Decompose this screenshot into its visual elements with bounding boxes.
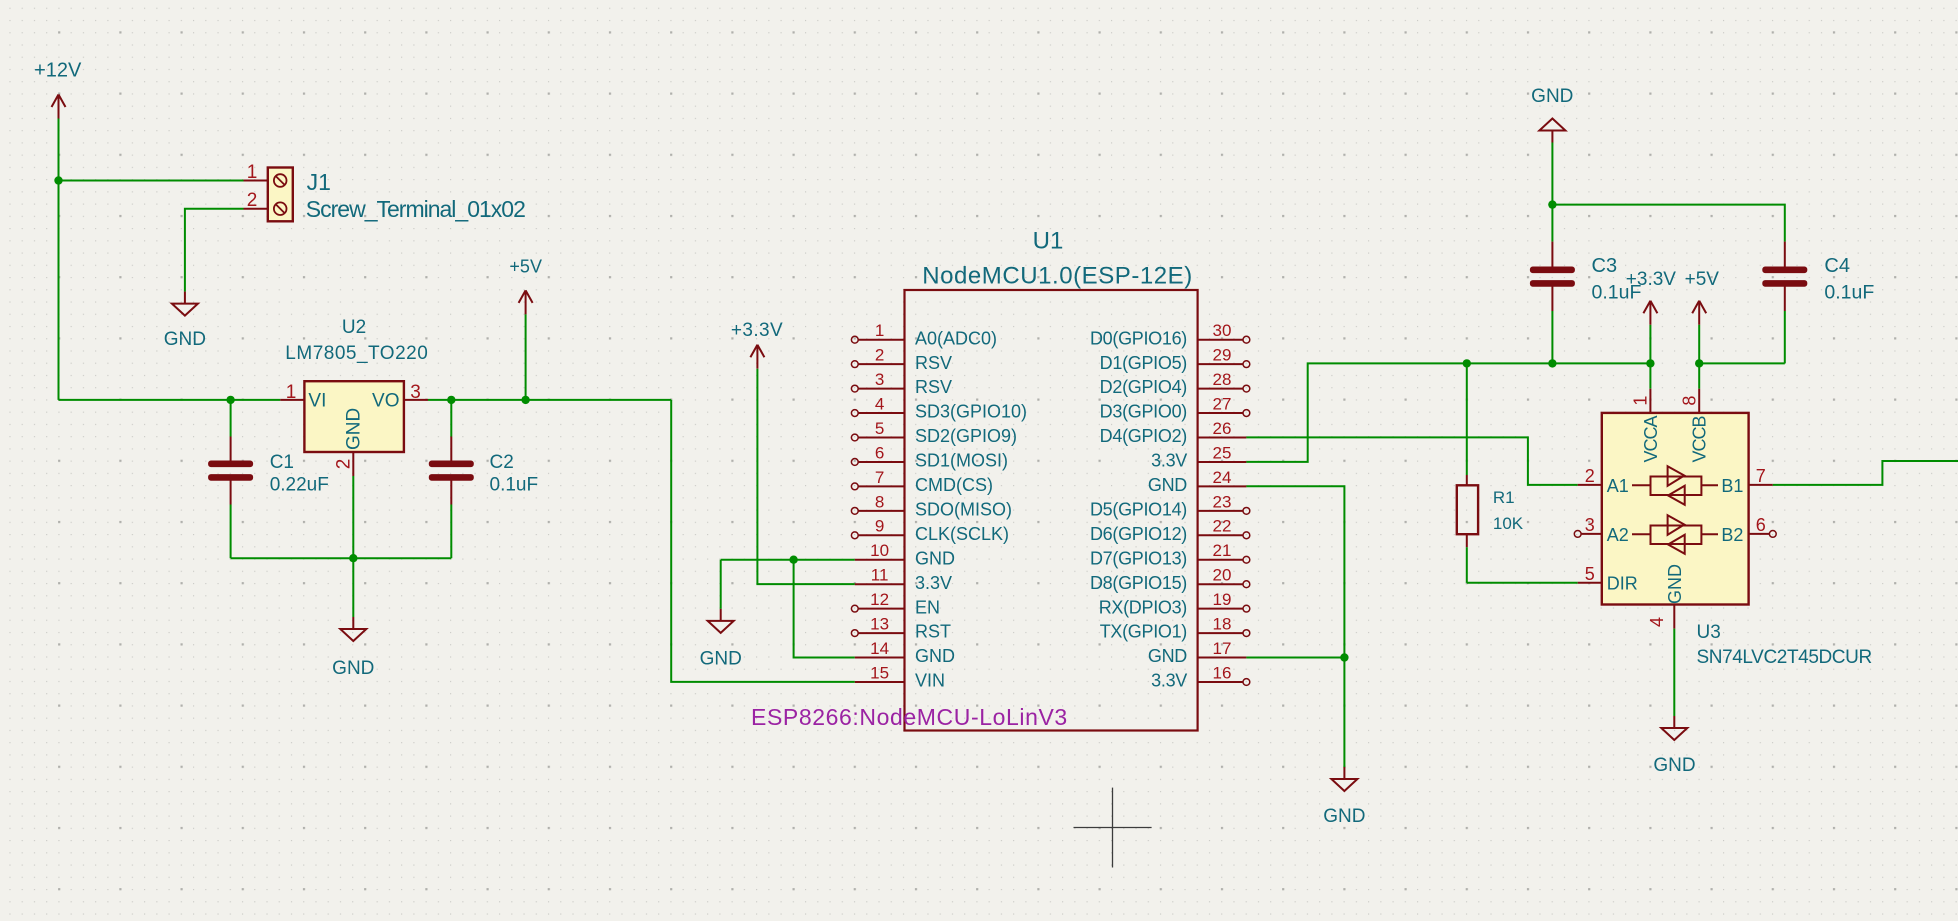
ground symbol left of U1 xyxy=(700,609,742,670)
U2 pin 3 VO xyxy=(404,399,428,401)
svg-text:6: 6 xyxy=(875,443,884,462)
junction GND pins xyxy=(789,556,797,564)
U1 pin 16 3.3V xyxy=(1151,663,1250,690)
svg-text:SD1(MOSI): SD1(MOSI) xyxy=(915,451,1008,471)
wire C4 bottom to VCCB xyxy=(1699,362,1785,364)
svg-text:VCCA: VCCA xyxy=(1641,415,1661,462)
wire +5V rail to VIN xyxy=(671,400,855,682)
wire VO to +5V rail xyxy=(428,399,671,401)
svg-text:R1: R1 xyxy=(1493,488,1515,507)
J1 pin 1 xyxy=(244,180,268,182)
svg-text:RX(DPIO3): RX(DPIO3) xyxy=(1099,597,1187,617)
svg-text:D4(GPIO2): D4(GPIO2) xyxy=(1100,426,1187,446)
svg-text:0.22uF: 0.22uF xyxy=(270,474,329,495)
svg-text:GND: GND xyxy=(164,329,206,350)
wire R1 bottom to DIR xyxy=(1467,582,1578,584)
svg-text:6: 6 xyxy=(1756,515,1766,535)
wire +5V arrow to VCCB xyxy=(1698,325,1700,364)
wire +12V rail to U2 VI xyxy=(59,399,281,401)
svg-text:CMD(CS): CMD(CS) xyxy=(915,475,993,495)
wire J1 pin2 to GND xyxy=(185,209,244,292)
U1 pin 17 GND xyxy=(1148,639,1247,666)
U1 pin 29 D1(GPIO5) xyxy=(1100,346,1250,373)
svg-text:10K: 10K xyxy=(1493,514,1524,533)
svg-text:GND: GND xyxy=(700,649,742,670)
U1 pin 12 EN xyxy=(851,590,940,617)
wire U2 pin2 to rail xyxy=(352,476,354,558)
svg-text:5: 5 xyxy=(875,419,884,438)
junction VCCA xyxy=(1646,359,1654,367)
svg-text:NodeMCU1.0(ESP-12E): NodeMCU1.0(ESP-12E) xyxy=(922,263,1193,290)
U1 pin 20 D8(GPIO15) xyxy=(1090,566,1250,593)
svg-text:9: 9 xyxy=(875,517,884,536)
wire U1 pin17 GND to junction xyxy=(1246,657,1344,659)
U1 pin 21 D7(GPIO13) xyxy=(1090,541,1250,568)
svg-text:18: 18 xyxy=(1213,615,1232,634)
svg-text:D2(GPIO4): D2(GPIO4) xyxy=(1100,377,1187,397)
junction C3 bottom on 3.3V bus xyxy=(1548,359,1556,367)
power symbol +5V xyxy=(509,257,542,315)
U1 pin 10 GND xyxy=(855,541,955,568)
svg-text:17: 17 xyxy=(1213,639,1232,658)
svg-text:CLK(SCLK): CLK(SCLK) xyxy=(915,524,1009,544)
U1 pin 25 3.3V xyxy=(1151,443,1246,470)
svg-text:U2: U2 xyxy=(342,317,366,338)
svg-text:15: 15 xyxy=(870,663,889,682)
U1 pin 7 CMD(CS) xyxy=(851,468,993,495)
svg-text:ESP8266:NodeMCU-LoLinV3: ESP8266:NodeMCU-LoLinV3 xyxy=(751,704,1068,730)
U3 pin 7 B1 xyxy=(1721,466,1772,496)
capacitor C4 0.1uF xyxy=(1762,242,1874,364)
svg-text:GND: GND xyxy=(332,658,374,679)
wire U1 pin26 D4 to U3 A1 xyxy=(1246,437,1577,485)
wire U1 GND pins 10,14 xyxy=(721,559,855,561)
svg-text:20: 20 xyxy=(1213,566,1232,585)
svg-text:B2: B2 xyxy=(1721,525,1743,545)
U1 pin 30 D0(GPIO16) xyxy=(1090,321,1250,348)
U1 pin 23 D5(GPIO14) xyxy=(1090,492,1250,519)
U1 pin 5 SD2(GPIO9) xyxy=(851,419,1017,446)
svg-text:GND: GND xyxy=(1665,564,1685,604)
ground symbol below J1 xyxy=(164,292,206,350)
svg-text:VO: VO xyxy=(372,391,399,412)
wire GND rail to C4 xyxy=(1552,205,1784,242)
svg-text:GND: GND xyxy=(1531,86,1573,107)
U1 pin 9 CLK(SCLK) xyxy=(851,517,1009,544)
svg-text:3: 3 xyxy=(410,382,421,403)
svg-text:16: 16 xyxy=(1213,663,1232,682)
U1 pin 11 3.3V xyxy=(855,566,952,593)
svg-text:VI: VI xyxy=(308,391,326,412)
svg-text:C2: C2 xyxy=(490,452,514,473)
svg-text:2: 2 xyxy=(247,190,258,211)
wire +3.3V arrow to bus xyxy=(1649,325,1651,364)
power symbol +3.3V xyxy=(731,320,783,369)
wire U2 GND rail xyxy=(231,557,452,559)
U1 pin 24 GND xyxy=(1148,468,1247,495)
svg-text:27: 27 xyxy=(1213,394,1232,413)
connector J1 Screw_Terminal_01x02 xyxy=(244,162,526,222)
power symbol +5V right xyxy=(1685,269,1720,325)
svg-text:22: 22 xyxy=(1213,517,1232,536)
U1 pin 22 D6(GPIO12) xyxy=(1090,517,1250,544)
svg-text:D0(GPIO16): D0(GPIO16) xyxy=(1090,328,1187,348)
regulator U2 LM7805_TO220 xyxy=(280,317,428,476)
svg-text:24: 24 xyxy=(1213,468,1232,487)
svg-text:29: 29 xyxy=(1213,346,1232,365)
svg-text:+5V: +5V xyxy=(1685,269,1720,290)
svg-text:D7(GPIO13): D7(GPIO13) xyxy=(1090,548,1187,568)
junction +5V arrow xyxy=(521,396,529,404)
svg-text:8: 8 xyxy=(875,492,884,511)
svg-text:7: 7 xyxy=(1756,466,1766,486)
svg-text:GND: GND xyxy=(1653,755,1695,776)
svg-text:30: 30 xyxy=(1213,321,1232,340)
junction VCCB xyxy=(1695,359,1703,367)
wire +3.3V to U1 pin 11 xyxy=(757,369,854,584)
svg-text:A0(ADC0): A0(ADC0) xyxy=(915,328,997,348)
wire to J1 pin 1 xyxy=(59,180,244,182)
U3 buffer symbol channel 2 xyxy=(1632,515,1718,554)
svg-text:1: 1 xyxy=(247,162,258,183)
U3 pin 1 VCCA xyxy=(1631,363,1661,462)
junction R1 top on 3.3V bus xyxy=(1463,359,1471,367)
junction GND right xyxy=(1340,653,1348,661)
capacitor C2 0.1uF xyxy=(429,400,538,558)
U1 pin 26 D4(GPIO2) xyxy=(1100,419,1247,446)
power symbol +3.3V right xyxy=(1626,269,1677,325)
wire junction to pin 14 xyxy=(794,560,855,658)
svg-text:+3.3V: +3.3V xyxy=(731,320,783,341)
svg-text:C4: C4 xyxy=(1824,255,1850,277)
svg-text:LM7805_TO220: LM7805_TO220 xyxy=(285,343,428,364)
sheet centre marker cross xyxy=(1074,788,1152,868)
svg-text:SD2(GPIO9): SD2(GPIO9) xyxy=(915,426,1017,446)
junction top GND xyxy=(1548,200,1556,208)
svg-text:RSV: RSV xyxy=(915,377,952,397)
junction U2 GND xyxy=(349,554,357,562)
U1 pin 15 VIN xyxy=(855,663,945,690)
svg-text:A1: A1 xyxy=(1607,476,1629,496)
capacitor C3 0.1uF xyxy=(1530,205,1642,364)
U1 pin 28 D2(GPIO4) xyxy=(1100,370,1250,397)
IC U1 NodeMCU1.0(ESP-12E) xyxy=(905,228,1198,731)
ground symbol top right (flipped) xyxy=(1531,86,1573,143)
svg-text:12: 12 xyxy=(870,590,889,609)
U3 pin 5 DIR xyxy=(1578,564,1638,594)
junction C2 top xyxy=(447,396,455,404)
svg-text:D8(GPIO15): D8(GPIO15) xyxy=(1090,573,1187,593)
svg-text:2: 2 xyxy=(334,459,355,470)
ground symbol below U2 xyxy=(332,617,374,679)
svg-text:+3.3V: +3.3V xyxy=(1626,269,1677,290)
svg-text:28: 28 xyxy=(1213,370,1232,389)
svg-text:21: 21 xyxy=(1213,541,1232,560)
U1 pin 27 D3(GPIO0) xyxy=(1100,394,1250,421)
svg-text:VCCB: VCCB xyxy=(1690,415,1710,462)
U1 pin 6 SD1(MOSI) xyxy=(851,443,1008,470)
svg-text:3.3V: 3.3V xyxy=(1151,671,1187,691)
svg-text:D5(GPIO14): D5(GPIO14) xyxy=(1090,499,1187,519)
wire +12V vertical xyxy=(58,119,60,400)
svg-text:A2: A2 xyxy=(1607,525,1629,545)
svg-text:B1: B1 xyxy=(1721,476,1743,496)
junction +12V / J1 pin1 xyxy=(54,176,62,184)
wire top GND down xyxy=(1551,143,1553,205)
svg-text:23: 23 xyxy=(1213,492,1232,511)
svg-text:7: 7 xyxy=(875,468,884,487)
svg-text:GND: GND xyxy=(1148,475,1187,495)
resistor R1 10K xyxy=(1457,363,1524,582)
svg-text:GND: GND xyxy=(1148,646,1187,666)
svg-text:U3: U3 xyxy=(1697,622,1721,643)
U3 buffer symbol channel 1 xyxy=(1632,466,1718,505)
svg-text:RSV: RSV xyxy=(915,353,952,373)
ground symbol below U3 xyxy=(1653,716,1695,776)
svg-text:SN74LVC2T45DCUR: SN74LVC2T45DCUR xyxy=(1697,647,1872,668)
svg-text:3.3V: 3.3V xyxy=(915,573,952,593)
svg-text:+12V: +12V xyxy=(34,60,82,82)
svg-text:Screw_Terminal_01x02: Screw_Terminal_01x02 xyxy=(306,196,525,222)
svg-text:1: 1 xyxy=(1631,396,1651,406)
U1 pin 13 RST xyxy=(851,615,951,642)
wire +5V arrow down xyxy=(525,314,527,400)
svg-text:DIR: DIR xyxy=(1607,574,1638,594)
wire U1 pin24 GND right and down xyxy=(1246,486,1344,657)
svg-text:1: 1 xyxy=(286,382,297,403)
wire U1 pin25 3.3V up to bus xyxy=(1246,363,1650,462)
U3 pin 3 A2 (nc) xyxy=(1574,515,1629,545)
wire to left ground xyxy=(720,560,722,609)
capacitor C1 0.22uF xyxy=(208,400,329,558)
svg-text:0.1uF: 0.1uF xyxy=(490,474,539,495)
svg-text:14: 14 xyxy=(870,639,889,658)
IC U3 SN74LVC2T45DCUR xyxy=(1602,413,1749,605)
svg-text:GND: GND xyxy=(915,646,955,666)
svg-text:13: 13 xyxy=(870,615,889,634)
svg-text:GND: GND xyxy=(915,548,955,568)
svg-text:25: 25 xyxy=(1213,443,1232,462)
wire junction down to ground xyxy=(1343,658,1345,768)
ground symbol below right of U1 xyxy=(1323,767,1365,827)
svg-text:D1(GPIO5): D1(GPIO5) xyxy=(1100,353,1187,373)
svg-text:3: 3 xyxy=(875,370,884,389)
U1 pin 1 A0(ADC0) xyxy=(851,321,997,348)
svg-text:8: 8 xyxy=(1679,396,1699,406)
svg-text:0.1uF: 0.1uF xyxy=(1824,281,1874,303)
U1 pin 18 TX(GPIO1) xyxy=(1100,615,1250,642)
U3 pin 2 A1 xyxy=(1578,466,1629,496)
U1 pin 8 SDO(MISO) xyxy=(851,492,1012,519)
svg-text:10: 10 xyxy=(870,541,889,560)
U3 pin 6 B2 (nc) xyxy=(1721,515,1776,545)
svg-text:SDO(MISO): SDO(MISO) xyxy=(915,499,1012,519)
wire U3 GND pin to ground xyxy=(1673,629,1675,716)
U2 pin 1 VI xyxy=(280,399,304,401)
svg-text:+5V: +5V xyxy=(509,257,542,277)
svg-text:11: 11 xyxy=(871,566,889,585)
wire rail to ground xyxy=(352,558,354,617)
svg-text:RST: RST xyxy=(915,622,951,642)
U1 pin 2 RSV xyxy=(851,346,952,373)
svg-text:U1: U1 xyxy=(1033,228,1064,255)
svg-text:2: 2 xyxy=(875,346,884,365)
svg-text:26: 26 xyxy=(1213,419,1232,438)
J1 pin 2 xyxy=(244,208,268,210)
svg-text:J1: J1 xyxy=(307,169,331,195)
svg-text:3: 3 xyxy=(1585,515,1595,535)
svg-text:2: 2 xyxy=(1585,466,1595,486)
svg-text:GND: GND xyxy=(1323,806,1365,827)
wire B1 to right edge xyxy=(1773,461,1958,485)
svg-text:SD3(GPIO10): SD3(GPIO10) xyxy=(915,402,1027,422)
U2 pin 2 GND xyxy=(352,452,354,476)
svg-text:C3: C3 xyxy=(1592,255,1618,277)
svg-text:4: 4 xyxy=(1647,617,1667,627)
svg-text:4: 4 xyxy=(875,394,884,413)
svg-text:D6(GPIO12): D6(GPIO12) xyxy=(1090,524,1187,544)
U1 pin 19 RX(DPIO3) xyxy=(1099,590,1250,617)
U1 pin 14 GND xyxy=(855,639,955,666)
svg-text:1: 1 xyxy=(875,321,884,340)
svg-text:EN: EN xyxy=(915,597,940,617)
U3 pin 8 VCCB xyxy=(1679,363,1709,462)
junction C1 top xyxy=(226,396,234,404)
svg-text:VIN: VIN xyxy=(915,671,945,691)
U1 pin 3 RSV xyxy=(851,370,952,397)
svg-text:19: 19 xyxy=(1213,590,1232,609)
svg-text:GND: GND xyxy=(343,408,364,450)
U3 pin 4 GND xyxy=(1647,564,1685,629)
svg-text:5: 5 xyxy=(1585,564,1595,584)
power symbol +12V xyxy=(34,60,82,119)
svg-text:TX(GPIO1): TX(GPIO1) xyxy=(1100,622,1187,642)
U1 pin 4 SD3(GPIO10) xyxy=(851,394,1027,421)
svg-text:C1: C1 xyxy=(270,452,294,473)
svg-text:3.3V: 3.3V xyxy=(1151,451,1187,471)
svg-text:D3(GPIO0): D3(GPIO0) xyxy=(1100,402,1187,422)
